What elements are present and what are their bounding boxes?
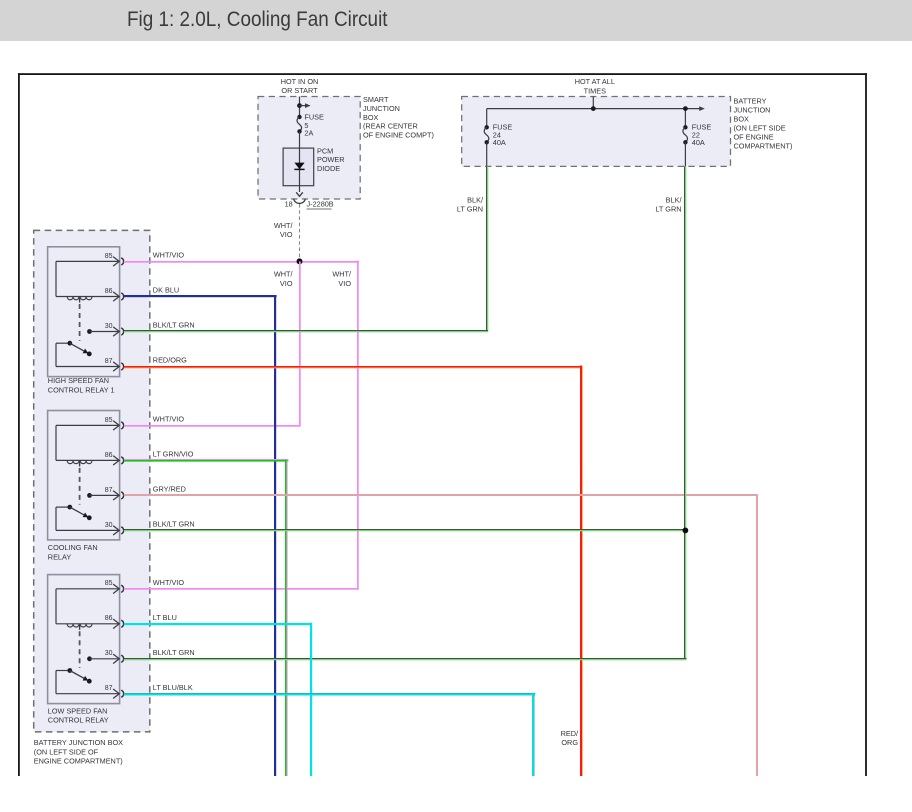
wire WHT/VIO dashed from connector to splice	[299, 204, 301, 261]
PCM POWER DIODE label	[317, 146, 345, 173]
high speed fan control relay K1 - pin arrow	[114, 362, 120, 371]
high speed fan control relay K1 - pin arrow	[114, 327, 120, 336]
high speed fan control relay K1 - contact wire	[87, 329, 119, 334]
wire label WHT/VIO	[153, 415, 185, 424]
svg-text:(REAR CENTER: (REAR CENTER	[363, 122, 418, 131]
svg-text:ENGINE COMPARTMENT): ENGINE COMPARTMENT)	[34, 757, 123, 766]
high speed fan control relay K1 - common pin wire	[56, 343, 119, 366]
pin 18 label	[285, 200, 293, 209]
high speed fan control relay K1 - relay name label	[48, 376, 115, 394]
low speed fan control relay K3 - relay coil	[56, 589, 119, 630]
PCM power diode D1	[283, 148, 314, 192]
low speed fan control relay K3 - pin arrow	[114, 584, 120, 593]
battery junction box (left, dashed)	[34, 230, 150, 732]
svg-text:30: 30	[105, 650, 113, 657]
wire RED/ORG relay K1 pin87	[124, 366, 583, 777]
high speed fan control relay K1 - pin 85 label	[105, 253, 113, 260]
splice node S1 WHT/VIO	[297, 258, 303, 264]
wire label WHT/VIO	[153, 251, 185, 260]
wire from HOT IN ON into smart junction box	[299, 97, 301, 118]
low speed fan control relay K3 - contact wire	[87, 656, 119, 661]
cooling fan relay K2 - pin 87 label	[105, 487, 113, 494]
svg-text:86: 86	[105, 452, 113, 459]
svg-text:OF ENGINE COMPT): OF ENGINE COMPT)	[363, 130, 434, 139]
high speed fan control relay K1 - relay coil	[56, 261, 119, 302]
wire WHT/VIO splice down to relay K2 pin85	[124, 261, 301, 426]
high speed fan control relay K1 - pin arrow	[114, 292, 120, 301]
svg-text:(ON LEFT SIDE OF: (ON LEFT SIDE OF	[34, 747, 99, 756]
low speed fan control relay K3 - pin arrow	[114, 689, 120, 698]
cooling fan relay K2 - pin 86 label	[105, 452, 113, 459]
svg-text:40A: 40A	[493, 138, 506, 147]
wire LT BLU/BLK relay K3 pin87	[124, 693, 535, 776]
wire label WHT/VIO (left of splice drop)	[274, 270, 294, 288]
low speed fan control relay K3 - pin 30 label	[105, 650, 113, 657]
svg-text:RED/: RED/	[561, 729, 579, 738]
cooling fan relay K2 - contact wire	[87, 493, 119, 498]
svg-text:85: 85	[105, 417, 113, 424]
title bar	[0, 0, 912, 41]
cooling fan relay K2 - pin 30 label	[105, 522, 113, 529]
svg-text:J-2280B: J-2280B	[307, 200, 334, 209]
wire BLK/LT GRN relay K2 pin30 to fuse22 drop	[124, 529, 687, 531]
high speed fan control relay K1 - pin connector arc	[121, 328, 123, 335]
svg-text:LOW SPEED FAN: LOW SPEED FAN	[48, 706, 108, 715]
low speed fan control relay K3 - pin connector arc	[121, 585, 123, 592]
svg-text:BLK/LT GRN: BLK/LT GRN	[153, 648, 195, 657]
wire WHT/VIO right branch down to relay K3 pin85	[124, 261, 359, 590]
wire BLK/LT GRN fuse22 drop	[684, 166, 686, 658]
svg-text:DK BLU: DK BLU	[153, 286, 179, 295]
svg-text:RED/ORG: RED/ORG	[153, 356, 187, 365]
low speed fan control relay K3 - pin connector arc	[121, 620, 123, 627]
svg-text:30: 30	[105, 323, 113, 330]
BATTERY JUNCTION BOX name label (bottom left)	[34, 738, 123, 766]
wire HOT AT ALL TIMES feed into box	[592, 97, 594, 109]
svg-text:COMPARTMENT): COMPARTMENT)	[734, 142, 793, 151]
cooling fan relay K2 - pin 85 label	[105, 417, 113, 424]
fuse F22 value label	[692, 123, 712, 147]
svg-text:TIMES: TIMES	[584, 87, 606, 96]
high speed fan control relay K1 - pin connector arc	[121, 258, 123, 265]
cooling fan relay K2 - pin connector arc	[121, 492, 123, 499]
svg-text:2A: 2A	[304, 129, 313, 138]
cooling fan relay K2 - relay box	[48, 411, 120, 540]
wire label DK BLU	[153, 286, 179, 295]
low speed fan control relay K3 - switch blade	[67, 668, 91, 684]
svg-text:BLK/: BLK/	[467, 196, 484, 205]
wire LT GRN/VIO relay K2 pin86	[124, 459, 288, 776]
svg-text:86: 86	[105, 615, 113, 622]
wire label LT BLU	[153, 613, 177, 622]
junction node fuse22/relay K2 pin30	[683, 528, 689, 534]
svg-text:18: 18	[285, 200, 293, 209]
wire fuse5 to PCM power diode	[299, 131, 301, 148]
wire label BLK/LT GRN (fuse 24 drop)	[457, 196, 484, 214]
cooling fan relay K2 - pin arrow	[114, 491, 120, 500]
cooling fan relay K2 - switch blade	[67, 505, 91, 520]
svg-text:OF ENGINE: OF ENGINE	[734, 133, 774, 142]
cooling fan relay K2 - pin connector arc	[121, 457, 123, 464]
wire label BLK/LT GRN	[153, 321, 195, 330]
svg-text:85: 85	[105, 253, 113, 260]
low speed fan control relay K3 - common pin wire	[56, 671, 119, 694]
wire label RED/ORG (bottom)	[561, 729, 579, 747]
svg-text:CONTROL RELAY: CONTROL RELAY	[48, 716, 109, 725]
fuse F24 40A	[484, 125, 489, 166]
wire label LT BLU/BLK	[153, 683, 193, 692]
svg-text:BATTERY JUNCTION BOX: BATTERY JUNCTION BOX	[34, 738, 123, 747]
cooling fan relay K2 - pin arrow	[114, 456, 120, 465]
svg-text:WHT/: WHT/	[274, 270, 294, 279]
svg-text:GRY/RED: GRY/RED	[153, 485, 186, 494]
svg-text:LT GRN: LT GRN	[655, 205, 681, 214]
smart junction box U1 (dashed)	[258, 97, 360, 200]
title text	[127, 8, 388, 32]
svg-text:30: 30	[105, 522, 113, 529]
svg-text:VIO: VIO	[280, 230, 293, 239]
low speed fan control relay K3 - pin 86 label	[105, 615, 113, 622]
cooling fan relay K2 - actuator dashed link	[79, 468, 81, 505]
svg-text:POWER: POWER	[317, 155, 345, 164]
bus junction node	[591, 106, 596, 111]
fuse F5 2A	[297, 115, 302, 134]
svg-text:SMART: SMART	[363, 95, 389, 104]
svg-text:HIGH SPEED FAN: HIGH SPEED FAN	[48, 376, 109, 385]
low speed fan control relay K3 - actuator dashed link	[79, 631, 81, 668]
svg-text:RELAY: RELAY	[48, 552, 72, 561]
svg-text:LT GRN/VIO: LT GRN/VIO	[153, 450, 194, 459]
label HOT AT ALL TIMES	[575, 77, 615, 95]
wire label WHT/VIO (right branch)	[332, 270, 352, 288]
svg-text:VIO: VIO	[280, 279, 293, 288]
wire LT BLU relay K3 pin86	[124, 623, 312, 776]
wire BLK/LT GRN fuse22 drop to relay K3 pin30	[124, 658, 687, 660]
svg-text:OR START: OR START	[281, 86, 318, 95]
svg-text:WHT/: WHT/	[274, 221, 294, 230]
svg-text:PCM: PCM	[317, 146, 333, 155]
svg-text:JUNCTION: JUNCTION	[363, 104, 400, 113]
bus junction node 2	[683, 106, 688, 111]
high speed fan control relay K1 - actuator dashed link	[79, 304, 81, 341]
svg-text:WHT/VIO: WHT/VIO	[153, 578, 185, 587]
wire label LT GRN/VIO	[153, 450, 194, 459]
wire label GRY/RED	[153, 485, 186, 494]
svg-text:CONTROL RELAY 1: CONTROL RELAY 1	[48, 385, 115, 394]
svg-text:BLK/LT GRN: BLK/LT GRN	[153, 520, 195, 529]
wire label WHT/VIO (upper)	[274, 221, 294, 239]
low speed fan control relay K3 - pin arrow	[114, 654, 120, 663]
svg-text:BATTERY: BATTERY	[734, 97, 767, 106]
node feed tap with arrow	[297, 103, 311, 108]
low speed fan control relay K3 - relay name label	[48, 706, 109, 724]
svg-text:(ON LEFT SIDE: (ON LEFT SIDE	[734, 124, 786, 133]
svg-text:HOT IN ON: HOT IN ON	[281, 77, 319, 86]
BATTERY JUNCTION BOX name label (top right)	[734, 97, 793, 151]
svg-text:87: 87	[105, 358, 113, 365]
connector J-2280B pin 18 out of smart junction box	[294, 192, 305, 203]
low speed fan control relay K3 - relay box	[48, 575, 120, 704]
cooling fan relay K2 - pin connector arc	[121, 422, 123, 429]
high speed fan control relay K1 - pin 87 label	[105, 358, 113, 365]
svg-text:ORG: ORG	[561, 738, 578, 747]
svg-text:40A: 40A	[692, 138, 705, 147]
svg-text:BLK/LT GRN: BLK/LT GRN	[153, 321, 195, 330]
wire label BLK/LT GRN	[153, 520, 195, 529]
high speed fan control relay K1 - pin connector arc	[121, 293, 123, 300]
svg-text:87: 87	[105, 487, 113, 494]
low speed fan control relay K3 - pin arrow	[114, 619, 120, 628]
fuse F24 value label	[493, 123, 513, 147]
low speed fan control relay K3 - pin connector arc	[121, 690, 123, 697]
label HOT IN ON OR START	[281, 77, 319, 95]
wire label RED/ORG	[153, 356, 187, 365]
svg-text:DIODE: DIODE	[317, 164, 340, 173]
svg-text:85: 85	[105, 580, 113, 587]
svg-text:LT GRN: LT GRN	[457, 205, 483, 214]
svg-text:WHT/: WHT/	[332, 270, 352, 279]
wire WHT/VIO relay K1 pin85 to splice and corner	[124, 261, 359, 263]
low speed fan control relay K3 - pin connector arc	[121, 655, 123, 662]
svg-text:HOT AT ALL: HOT AT ALL	[575, 77, 615, 86]
low speed fan control relay K3 - pin 85 label	[105, 580, 113, 587]
fuse F22 40A	[683, 125, 688, 166]
svg-text:WHT/VIO: WHT/VIO	[153, 415, 185, 424]
svg-text:VIO: VIO	[338, 279, 351, 288]
wire BLK/LT GRN fuse24 to relay K1 pin30	[124, 166, 489, 332]
svg-text:LT BLU/BLK: LT BLU/BLK	[153, 683, 193, 692]
svg-text:JUNCTION: JUNCTION	[734, 106, 771, 115]
wire label BLK/LT GRN	[153, 648, 195, 657]
fuse F5 value label	[304, 112, 324, 137]
wire DK BLU relay K1 pin86	[124, 295, 277, 776]
cooling fan relay K2 - pin arrow	[114, 526, 120, 535]
wire label WHT/VIO	[153, 578, 185, 587]
battery junction box (top right, dashed)	[462, 97, 731, 167]
svg-text:BLK/: BLK/	[666, 196, 683, 205]
high speed fan control relay K1 - pin 30 label	[105, 323, 113, 330]
wire GRY/RED relay K2 pin87	[124, 494, 758, 776]
low speed fan control relay K3 - pin 87 label	[105, 685, 113, 692]
cooling fan relay K2 - relay name label	[48, 543, 98, 561]
cooling fan relay K2 - pin arrow	[114, 421, 120, 430]
high speed fan control relay K1 - pin arrow	[114, 257, 120, 266]
svg-text:LT BLU: LT BLU	[153, 613, 177, 622]
SMART JUNCTION BOX name label	[363, 95, 434, 139]
high speed fan control relay K1 - relay box	[48, 247, 120, 377]
svg-text:WHT/VIO: WHT/VIO	[153, 251, 185, 260]
high speed fan control relay K1 - pin 86 label	[105, 288, 113, 295]
wire label BLK/LT GRN (fuse 22 drop)	[655, 196, 682, 214]
high speed fan control relay K1 - pin connector arc	[121, 363, 123, 370]
svg-text:87: 87	[105, 685, 113, 692]
cooling fan relay K2 - relay coil	[56, 425, 119, 466]
connector J-2280B label	[307, 200, 334, 209]
high speed fan control relay K1 - switch blade	[67, 341, 91, 356]
svg-text:86: 86	[105, 288, 113, 295]
cooling fan relay K2 - common pin wire	[56, 507, 119, 530]
cooling fan relay K2 - pin connector arc	[121, 527, 123, 534]
svg-text:COOLING FAN: COOLING FAN	[48, 543, 98, 552]
svg-text:BOX: BOX	[734, 115, 750, 124]
bus wire inside battery junction box	[487, 106, 705, 127]
